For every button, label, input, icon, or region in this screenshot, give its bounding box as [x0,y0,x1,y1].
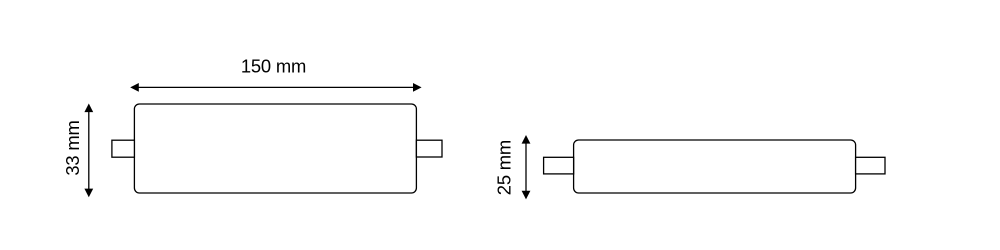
left pin of lamp 2 [544,157,574,174]
lamp body 1 (150 mm lamp) [134,104,416,193]
horizontal dimension arrow (150 mm) [130,83,421,92]
svg-text:25 mm: 25 mm [494,140,515,195]
vertical dimension arrow (33 mm) [84,104,93,198]
right pin of lamp 2 [856,157,885,174]
left pin of lamp 1 [112,140,134,157]
vertical dimension arrow (25 mm) [522,135,531,199]
svg-text:150 mm: 150 mm [241,56,306,77]
svg-text:33 mm: 33 mm [62,120,83,175]
lamp body 2 (25 mm lamp) [574,140,856,193]
right pin of lamp 1 [416,140,442,157]
